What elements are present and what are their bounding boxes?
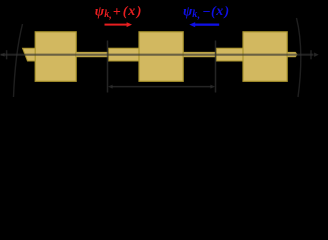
axis left arrowhead: [0, 53, 4, 57]
label psi_k,-(x) (blue): [183, 4, 229, 21]
mass block M3: [243, 32, 287, 82]
wire: right broken thin rod stub: [287, 52, 297, 57]
svg-text:,: ,: [197, 10, 201, 21]
unit cell boundary tick right: [215, 41, 217, 93]
dimension arrowhead left: [108, 85, 113, 89]
x axis line: [1, 54, 314, 56]
wire: thick rod segment before M3: [216, 48, 243, 61]
dimension arrowhead right: [210, 85, 215, 89]
mass block M1: [35, 32, 76, 82]
axis tick left: [6, 50, 8, 59]
axis right arrowhead: [314, 53, 319, 57]
svg-text:k: k: [192, 9, 197, 20]
arrow right-moving wave (red): [105, 22, 133, 27]
dimension line (lattice period): [112, 86, 212, 88]
wire: left broken thick rod segment (tapered): [23, 48, 36, 61]
svg-text:−: −: [202, 5, 210, 20]
svg-text:ψ: ψ: [95, 4, 105, 19]
break arc right: [297, 18, 301, 97]
mass block M2: [139, 32, 183, 82]
unit cell boundary tick left: [107, 41, 109, 93]
axis tick right: [310, 50, 312, 59]
wire: thick rod segment before M2: [109, 48, 139, 61]
svg-text:x: x: [215, 4, 223, 19]
wire: thin rod segment between M2 and cell boundary: [183, 52, 215, 57]
wire: thin rod segment between M1 and cell boundary: [76, 52, 108, 57]
break arc left: [14, 24, 23, 97]
svg-text:,: ,: [108, 10, 112, 21]
svg-text:+: +: [113, 5, 121, 20]
arrow left-moving wave (blue): [189, 22, 219, 27]
label psi_k,+(x) (red): [95, 4, 142, 21]
svg-text:x: x: [127, 4, 135, 19]
